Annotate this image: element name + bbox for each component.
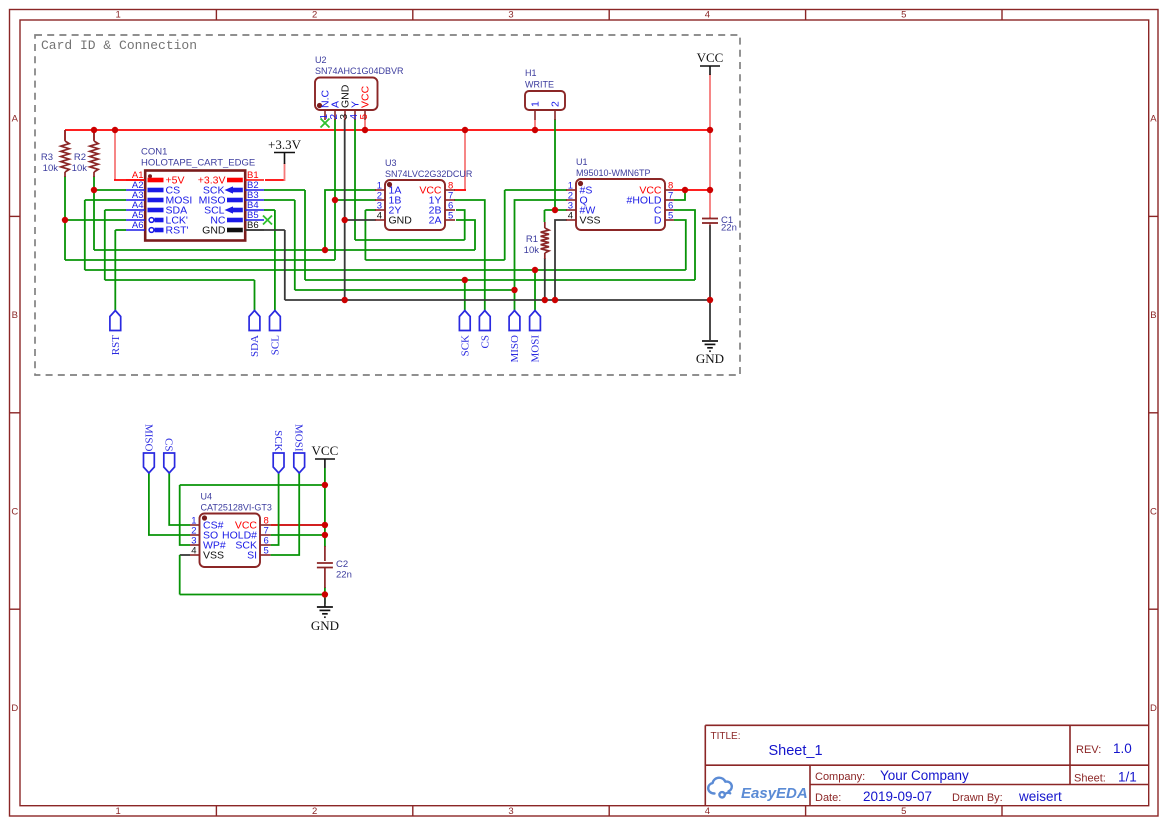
CON1 pin A3 MOSI xyxy=(126,190,192,207)
wire SCK net: port drop xyxy=(464,280,466,311)
port MOSI wire xyxy=(271,473,300,555)
CON1 pin B4 SCL xyxy=(204,200,264,217)
svg-text:SCK: SCK xyxy=(272,430,284,451)
svg-text:A: A xyxy=(12,114,19,125)
U1 pin 3 #W xyxy=(566,201,595,217)
wire GND net: R1 bottom xyxy=(544,258,546,300)
U2 pin1 marker dot xyxy=(317,103,322,108)
svg-text:2019-09-07: 2019-09-07 xyxy=(863,789,932,804)
junction at 325,250 xyxy=(322,247,328,253)
eeprom U1 body xyxy=(576,179,665,230)
junction at 710,300 xyxy=(707,297,713,303)
svg-text:C: C xyxy=(11,507,18,518)
wire CS net: R2 bottom vertical xyxy=(93,176,95,250)
svg-text:Sheet_1: Sheet_1 xyxy=(769,743,823,759)
svg-text:R1: R1 xyxy=(526,234,538,245)
svg-text:5: 5 xyxy=(448,211,453,222)
wire +3.3V to CON1 B1 xyxy=(265,179,285,181)
svg-text:1: 1 xyxy=(116,806,121,817)
connector CON1 pin1 marker dot xyxy=(148,174,152,178)
wire 2B net: riser to U3 2B xyxy=(456,210,465,240)
svg-text:22n: 22n xyxy=(721,223,737,234)
CON1 pin A2 CS xyxy=(126,180,180,197)
junction at 324.9,485 xyxy=(322,482,328,488)
U1 pin 1 #S xyxy=(566,181,592,197)
svg-text:1: 1 xyxy=(116,10,121,21)
port MOSI xyxy=(530,311,542,363)
wire MOSI net bus xyxy=(85,269,686,271)
svg-text:4: 4 xyxy=(568,211,573,222)
U2 pin 1 N.C xyxy=(319,90,332,121)
resistor R1 xyxy=(541,222,549,259)
wire GND net: CON1 B6 lead xyxy=(245,229,285,231)
power symbol VCC bottom xyxy=(312,443,339,468)
dashed group box "Card ID & Connection" xyxy=(35,35,740,375)
wire U3 VCC pin entry xyxy=(454,189,466,191)
svg-text:M95010-WMN6TP: M95010-WMN6TP xyxy=(576,168,651,178)
wire GND net: U2 GND vertical xyxy=(344,119,346,300)
svg-text:4: 4 xyxy=(191,546,196,557)
resistor R3 xyxy=(61,130,69,177)
wire SCL net: CON1 B4 lead xyxy=(264,209,275,211)
capacitor C2 xyxy=(317,546,333,588)
wire WRITE net: to R1 top xyxy=(544,210,546,222)
svg-text:10k: 10k xyxy=(43,163,59,174)
port RST xyxy=(110,311,122,356)
port SCK xyxy=(459,311,471,357)
CON1 pin A5 LCK' xyxy=(126,210,188,227)
junction at 94,190 xyxy=(91,187,97,193)
wire U1 pin7 HOLD tie xyxy=(674,190,685,200)
port MISO wire xyxy=(149,473,190,535)
wire SCK net vertical xyxy=(304,190,306,280)
CON1 pin B6 GND xyxy=(202,220,264,237)
svg-text:GND: GND xyxy=(389,215,413,227)
wire U4 pin8 to VCC xyxy=(271,524,325,526)
svg-text:VSS: VSS xyxy=(580,215,601,227)
wire CS net: U3 2A branch xyxy=(456,220,475,250)
frame column numbers top xyxy=(116,10,907,21)
svg-text:U4: U4 xyxy=(201,492,213,502)
svg-text:U2: U2 xyxy=(315,55,327,65)
U1 pin1 marker dot xyxy=(578,181,583,186)
wire GND net: C1 bottom to bus xyxy=(709,225,711,300)
wire MOSI net: U1 D branch xyxy=(674,220,686,270)
wire WP# pullup top xyxy=(180,484,325,486)
ground symbol GND bottom xyxy=(311,607,339,633)
wire MOSI net vertical xyxy=(84,200,86,270)
wire MISO net vertical xyxy=(294,200,296,290)
U3 pin 4 GND xyxy=(375,211,412,227)
U1 pin 2 Q xyxy=(566,191,588,207)
svg-text:CS: CS xyxy=(163,438,175,451)
wire MISO net bus xyxy=(295,289,515,291)
svg-text:HOLOTAPE_CART_EDGE: HOLOTAPE_CART_EDGE xyxy=(141,158,255,169)
wire 2B net horizontal xyxy=(355,239,465,241)
svg-text:5: 5 xyxy=(668,211,673,222)
inverter U2 body xyxy=(315,78,378,111)
svg-text:CON1: CON1 xyxy=(141,147,167,158)
U2 pin1 no-connect flag xyxy=(321,119,330,128)
wire 2B net: U2 Y vertical xyxy=(354,119,356,240)
junction at 464.8,280 xyxy=(462,277,468,283)
junction at 94,130 xyxy=(91,127,97,133)
U3 pin 7 1Y xyxy=(429,191,455,207)
ground symbol GND top xyxy=(696,341,724,366)
junction at 710,190 xyxy=(707,187,713,193)
wire R3 top connection xyxy=(64,130,66,140)
wire WP# pullup vertical xyxy=(180,485,190,545)
svg-text:1: 1 xyxy=(530,101,542,107)
wire MISO net: CON1 B3 lead xyxy=(264,199,295,201)
wire RST net: CON1 A6 lead xyxy=(115,229,126,231)
junction at 535,130 xyxy=(532,127,538,133)
H1 pin 1 xyxy=(530,101,542,120)
junction at 555,300 xyxy=(552,297,558,303)
CON1 pin B5 NC xyxy=(210,210,264,227)
port SCK xyxy=(272,430,284,473)
wire +5V drop to CON1 A1 xyxy=(114,130,116,180)
wire H1 pin1 to bus xyxy=(534,120,536,131)
wire U1 pin8 to VCC rail xyxy=(674,189,710,191)
wire WRITE net: H1 pin2 vertical xyxy=(554,119,556,210)
U1 pin 7 #HOLD xyxy=(626,191,674,207)
svg-text:3: 3 xyxy=(508,10,513,21)
wire LCK net: U2 A vertical xyxy=(334,119,336,260)
U1 pin 5 D xyxy=(654,211,674,227)
frame row letters left xyxy=(11,114,18,715)
svg-text:SN74LVC2G32DCUR: SN74LVC2G32DCUR xyxy=(385,169,473,179)
svg-text:R2: R2 xyxy=(74,152,86,163)
U4 pin 8 VCC xyxy=(235,516,271,532)
junction at 535,270 xyxy=(532,267,538,273)
EasyEDA logo cloud xyxy=(708,778,732,798)
wire U4 pin7 to VCC xyxy=(271,534,325,536)
svg-text:22n: 22n xyxy=(336,570,352,581)
wire CS net: U3 1A branch xyxy=(325,190,376,250)
svg-text:Drawn By:: Drawn By: xyxy=(952,792,1003,804)
svg-text:SDA: SDA xyxy=(249,335,261,357)
wire VSS loop horizontal xyxy=(180,594,325,596)
svg-text:R3: R3 xyxy=(41,152,53,163)
CON1 pin B3 MISO xyxy=(199,190,264,207)
U3 pin 8 VCC xyxy=(419,181,455,197)
svg-text:2: 2 xyxy=(550,101,562,107)
U3 pin 1 1A xyxy=(375,181,401,197)
port CS xyxy=(163,438,175,473)
svg-text:2: 2 xyxy=(312,806,317,817)
U3 pin 6 2B xyxy=(429,201,455,217)
svg-text:MISO: MISO xyxy=(509,335,521,363)
junction at 65,220 xyxy=(62,217,68,223)
U2 pin 5 VCC xyxy=(359,85,372,120)
wire 2Y to #S net: horizontal xyxy=(365,259,504,261)
U4 pin 1 CS# xyxy=(190,516,224,532)
port MOSI xyxy=(293,424,305,473)
wire SCK net: U1 C branch xyxy=(674,210,695,280)
svg-text:H1: H1 xyxy=(525,68,537,78)
wire MOSI net: port drop xyxy=(534,270,536,311)
svg-text:weisert: weisert xyxy=(1018,789,1062,804)
wire CS net: to CON1 A2 xyxy=(94,189,126,191)
svg-text:MOSI: MOSI xyxy=(293,424,305,452)
junction at 324.9,535 xyxy=(322,532,328,538)
wire SDA net: CON1 A4 lead xyxy=(105,209,126,211)
wire 2Y to #S net: riser to U1 pin1 xyxy=(504,190,506,260)
U1 pin 6 C xyxy=(654,201,674,217)
junction at 685,190 xyxy=(682,187,688,193)
power symbol VCC top xyxy=(697,50,724,75)
gate U3 body xyxy=(385,180,445,230)
wire SCK net bus xyxy=(305,279,695,281)
U4 pin 7 HOLD# xyxy=(222,526,271,542)
svg-text:SI: SI xyxy=(247,550,257,562)
svg-text:TITLE:: TITLE: xyxy=(711,731,741,742)
capacitor C1 xyxy=(702,217,718,226)
svg-text:Company:: Company: xyxy=(815,771,865,783)
wire SCL net: port drop xyxy=(274,210,276,311)
U4 pin 4 VSS xyxy=(190,546,224,562)
svg-text:Date:: Date: xyxy=(815,792,841,804)
wire VCC bottom vertical xyxy=(324,468,326,547)
junction at 710,130 xyxy=(707,127,713,133)
wire CSout net: U3 1Y to port xyxy=(454,200,485,311)
svg-text:D: D xyxy=(11,703,18,714)
U4 pin 6 SCK xyxy=(235,536,270,552)
svg-text:CAT25128VI-GT3: CAT25128VI-GT3 xyxy=(201,503,272,513)
U1 pin 8 VCC xyxy=(639,181,674,197)
CON1 pin A6 RST' xyxy=(126,220,189,237)
port SCK wire xyxy=(271,473,279,545)
junction at 365,130 xyxy=(362,127,368,133)
wire GND net: branch to U3 pin4 xyxy=(345,219,376,221)
wire 2Y to #S net: U3 pin3 lead xyxy=(365,209,376,211)
power symbol +3.3V xyxy=(268,137,302,164)
svg-text:4: 4 xyxy=(705,10,710,21)
wire GND net: stub to GND symbol xyxy=(709,300,711,340)
svg-text:5: 5 xyxy=(264,546,269,557)
port CS wire xyxy=(169,473,190,525)
junction at 324.9,594.5 xyxy=(322,591,328,597)
CON1 pin B2 SCK xyxy=(203,180,264,197)
svg-text:B: B xyxy=(12,310,18,321)
wire VSS loop vertical xyxy=(179,555,181,595)
wire C2 bottom to GND xyxy=(324,587,326,604)
svg-text:3: 3 xyxy=(508,806,513,817)
junction at 324.9,525 xyxy=(322,522,328,528)
svg-text:A6: A6 xyxy=(132,220,144,231)
wire SDA net bus xyxy=(105,279,255,281)
header H1 body xyxy=(525,91,565,110)
port MISO xyxy=(509,311,521,363)
port SDA xyxy=(249,311,261,358)
U3 pin1 marker dot xyxy=(387,182,392,187)
frame row letters right xyxy=(1150,114,1157,715)
svg-text:A: A xyxy=(1150,114,1157,125)
wire LCK net: R3 bottom vertical xyxy=(64,176,66,260)
U3 pin 3 2Y xyxy=(375,201,401,217)
wire GND net: U1 VSS branch xyxy=(555,220,567,300)
wire MISO net: U1 Q branch xyxy=(515,200,568,290)
svg-text:VSS: VSS xyxy=(203,550,224,562)
svg-text:VCC: VCC xyxy=(312,443,339,458)
wire U2 VCC pin5 to bus xyxy=(364,120,366,131)
wire LCK net bus xyxy=(65,259,335,261)
port MISO xyxy=(142,424,154,473)
svg-text:REV:: REV: xyxy=(1076,744,1101,756)
svg-text:CS: CS xyxy=(479,335,491,348)
wire LCK net: U3 1B branch xyxy=(335,199,376,201)
wire GND net: B6 vertical xyxy=(284,230,286,300)
U3 pin 5 2A xyxy=(429,211,455,227)
svg-text:SCK: SCK xyxy=(459,335,471,356)
wire R2 top connection xyxy=(93,130,95,140)
svg-text:VCC: VCC xyxy=(697,50,724,65)
CON1 pin A1 +5V xyxy=(126,170,184,187)
svg-text:RST': RST' xyxy=(166,225,189,237)
junction at 335,200 xyxy=(332,197,338,203)
svg-text:GND: GND xyxy=(202,225,226,237)
svg-text:1.0: 1.0 xyxy=(1113,741,1132,756)
resistor R2 xyxy=(90,130,98,177)
wire SCK net: CON1 B2 lead xyxy=(264,189,305,191)
wire +5V red bus horizontal xyxy=(65,129,710,131)
wire MISO net: port drop xyxy=(514,290,516,311)
junction at 344.7,300 xyxy=(342,297,348,303)
svg-text:D: D xyxy=(1150,703,1157,714)
wire +3.3V drop xyxy=(284,163,286,181)
svg-text:1/1: 1/1 xyxy=(1118,770,1137,785)
junction at 344.7,220 xyxy=(342,217,348,223)
U4 pin 3 WP# xyxy=(190,536,226,552)
svg-text:4: 4 xyxy=(377,211,382,222)
U4 pin 2 SO xyxy=(190,526,218,542)
frame column numbers bottom xyxy=(116,806,907,817)
connector CON1 body xyxy=(145,171,245,241)
wire +5V into A1 pin xyxy=(114,179,148,181)
wire VCC symbol down to U1 VCC xyxy=(709,74,711,217)
wire LCK net: to CON1 A5 xyxy=(65,219,126,221)
svg-text:MISO: MISO xyxy=(142,424,154,452)
U3 pin 2 1B xyxy=(375,191,401,207)
svg-text:5: 5 xyxy=(901,806,906,817)
junction at 465,130 xyxy=(462,127,468,133)
svg-text:4: 4 xyxy=(705,806,710,817)
wire MOSI net: CON1 A3 lead xyxy=(85,199,126,201)
eeprom U4 body xyxy=(200,514,261,568)
svg-text:C: C xyxy=(1150,507,1157,518)
title block frame xyxy=(705,725,1148,805)
wire U3 VCC drop xyxy=(464,130,466,190)
svg-text:GND: GND xyxy=(696,351,724,366)
svg-text:Card ID & Connection: Card ID & Connection xyxy=(41,38,197,53)
junction at 514.5,290 xyxy=(511,287,517,293)
svg-text:5: 5 xyxy=(901,10,906,21)
svg-text:2A: 2A xyxy=(429,215,442,227)
svg-text:U3: U3 xyxy=(385,158,397,168)
svg-text:10k: 10k xyxy=(524,245,540,256)
wire GND bus horizontal xyxy=(285,299,710,301)
wire RST net: port drop xyxy=(114,230,116,311)
U4 pin1 marker dot xyxy=(202,515,207,520)
svg-text:EasyEDA: EasyEDA xyxy=(741,785,808,802)
svg-text:C2: C2 xyxy=(336,559,348,570)
CON1 pin A4 SDA xyxy=(126,200,187,217)
H1 pin 2 xyxy=(550,101,562,120)
wire SDA net vertical xyxy=(104,210,106,280)
svg-text:2: 2 xyxy=(312,10,317,21)
CON1 B5 no-connect flag xyxy=(263,216,272,225)
svg-text:VCC: VCC xyxy=(360,85,372,108)
wire 2Y to #S net: vertical down xyxy=(364,210,366,260)
svg-text:B: B xyxy=(1150,310,1156,321)
U2 pin 3 GND xyxy=(339,84,352,120)
U4 pin 5 SI xyxy=(247,546,271,562)
svg-text:Sheet:: Sheet: xyxy=(1074,773,1106,785)
port CS xyxy=(479,311,491,349)
U2 pin 4 Y xyxy=(349,101,362,120)
svg-text:SN74AHC1G04DBVR: SN74AHC1G04DBVR xyxy=(315,66,404,76)
CON1 pin B1 +3.3V xyxy=(198,170,264,187)
wire WRITE net: to U1 #W xyxy=(545,209,568,211)
junction at 555,210 xyxy=(552,207,558,213)
wire CS net bus xyxy=(94,249,475,251)
svg-text:+3.3V: +3.3V xyxy=(268,137,302,152)
svg-text:5: 5 xyxy=(359,114,370,120)
svg-text:D: D xyxy=(654,215,662,227)
svg-text:U1: U1 xyxy=(576,157,588,167)
wire 2Y to #S net: to U1 #S xyxy=(505,189,567,191)
svg-text:MOSI: MOSI xyxy=(530,335,542,363)
junction at 115,130 xyxy=(112,127,118,133)
svg-text:Your Company: Your Company xyxy=(880,768,969,783)
wire U4 VSS lead xyxy=(180,554,190,556)
wire SDA net: port drop xyxy=(254,280,256,311)
svg-text:GND: GND xyxy=(311,618,339,633)
svg-text:WRITE: WRITE xyxy=(525,80,554,90)
svg-text:10k: 10k xyxy=(72,163,88,174)
U2 pin 2 A xyxy=(329,101,342,120)
port SCL xyxy=(270,311,282,356)
svg-text:SCL: SCL xyxy=(270,335,282,355)
svg-text:B6: B6 xyxy=(247,220,259,231)
svg-text:RST: RST xyxy=(110,335,122,355)
U1 pin 4 VSS xyxy=(566,211,601,227)
junction at 544.8,300 xyxy=(542,297,548,303)
wire GND stub bottom xyxy=(324,598,326,607)
